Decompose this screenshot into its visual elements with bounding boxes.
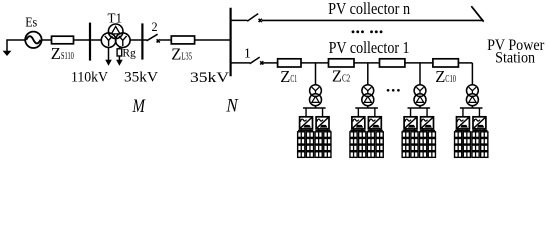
breaker 1 blade (250, 57, 260, 64)
PV unit 4 lv bus (471, 106, 473, 108)
impedance ZS110 (52, 36, 74, 44)
PV unit 1 lv bus (315, 106, 317, 108)
svg-text:N: N (225, 97, 239, 117)
PV unit 4 drop wire (471, 63, 473, 85)
ground arrow right (116, 60, 123, 66)
PV unit 1 inverter drops (305, 108, 307, 117)
PV unit 4 array 2 (472, 129, 488, 157)
svg-text:ZC2: ZC2 (332, 67, 350, 86)
PV unit 2 drop wire (367, 63, 369, 85)
svg-text:PV collector 1: PV collector 1 (329, 38, 410, 57)
wire ZC10 to last unit (458, 62, 472, 64)
ground arrow left (105, 60, 112, 66)
wire T1 to 35kV busbar (130, 39, 147, 41)
breaker 1 contact (260, 61, 263, 64)
wire source to ZS110 (42, 39, 52, 41)
wire to ZC1 (263, 62, 277, 64)
ground arrow at source Es (3, 40, 26, 56)
wire to ZC10 (405, 62, 433, 64)
PV unit 4 inverter drops (462, 108, 464, 117)
svg-text:Rg: Rg (122, 47, 136, 59)
PV unit 3 array 2 (420, 129, 436, 157)
PV unit 4 inverter box 2 (473, 117, 486, 129)
wire ZL35 to busbar N (195, 39, 231, 41)
PV unit 3 drop wire (419, 63, 421, 85)
svg-text:Station: Station (495, 50, 535, 67)
PV unit 1 array 1 (298, 129, 314, 157)
wire ZC1 to ZC2 (301, 62, 329, 64)
impedance ZC1 (278, 59, 301, 67)
svg-text:2: 2 (152, 20, 158, 34)
svg-text:ZL35: ZL35 (171, 45, 192, 64)
PV unit 2 inverter box 1 (352, 117, 365, 129)
svg-text:35kV: 35kV (190, 70, 229, 86)
impedance ZC2 (329, 59, 355, 67)
PV unit 4 inverter box 1 (457, 117, 470, 129)
impedance ZL35 (171, 36, 194, 44)
svg-text:M: M (132, 96, 146, 117)
svg-text:110kV: 110kV (71, 70, 108, 86)
wire ZS110 to 110kV busbar (74, 39, 102, 41)
PV unit 2 inverter drops (357, 108, 359, 117)
PV unit 2 array 1 (350, 129, 366, 157)
collector-n switch blade (247, 14, 258, 22)
PV unit 2 array 2 (367, 129, 383, 157)
PV unit 2 transformer (362, 85, 374, 106)
grounding line left winding (108, 47, 110, 60)
PV unit 4 array 1 (455, 129, 471, 157)
breaker 2 contact (157, 39, 160, 42)
grounding resistor Rg (117, 47, 122, 60)
PV unit 1 array 2 (315, 129, 331, 157)
svg-text:1: 1 (244, 47, 251, 62)
ellipsis between collectors (352, 30, 383, 33)
PV unit 3 array 1 (402, 129, 418, 157)
PV unit 1 drop wire (315, 63, 317, 85)
wire breaker to ZL35 (160, 39, 171, 41)
svg-text:ZS110: ZS110 (51, 44, 74, 63)
feeder end slash (471, 6, 483, 22)
PV collector n feeder line (262, 19, 483, 21)
PV unit 2 lv bus (367, 106, 369, 108)
PV unit 1 inverter box 1 (300, 117, 313, 129)
breaker 2 blade (147, 34, 158, 41)
ellipsis between PV units (387, 89, 400, 92)
transformer T1 (three-winding) (101, 24, 130, 48)
PV unit 3 inverter box 2 (421, 117, 434, 129)
svg-text:ZC1: ZC1 (280, 67, 297, 86)
wire N to collector-n switch (231, 19, 248, 21)
busbar 35kV (M side) (141, 23, 143, 59)
PV unit 1 inverter box 2 (316, 117, 329, 129)
impedance (middle, unlabeled) (380, 59, 405, 67)
PV unit 3 lv bus (419, 106, 421, 108)
svg-text:PV collector n: PV collector n (328, 0, 410, 18)
wire N to breaker 1 (231, 62, 251, 64)
AC source Es (25, 32, 41, 48)
busbar N (230, 8, 232, 76)
busbar 110kV (M side) (89, 23, 91, 61)
svg-text:35kV: 35kV (124, 70, 158, 86)
collector-n switch contact (259, 19, 262, 22)
PV unit 3 inverter drops (410, 108, 412, 117)
PV unit 3 transformer (414, 85, 426, 106)
svg-text:T1: T1 (108, 11, 123, 26)
PV unit 4 transformer (466, 85, 478, 106)
wire ZC2 to mid impedance (354, 62, 380, 64)
PV unit 3 inverter box 1 (404, 117, 417, 129)
PV unit 2 inverter box 2 (368, 117, 381, 129)
PV unit 1 transformer (310, 85, 322, 106)
svg-text:ZC10: ZC10 (435, 67, 456, 86)
impedance ZC10 (433, 59, 459, 67)
svg-text:Es: Es (25, 15, 37, 30)
